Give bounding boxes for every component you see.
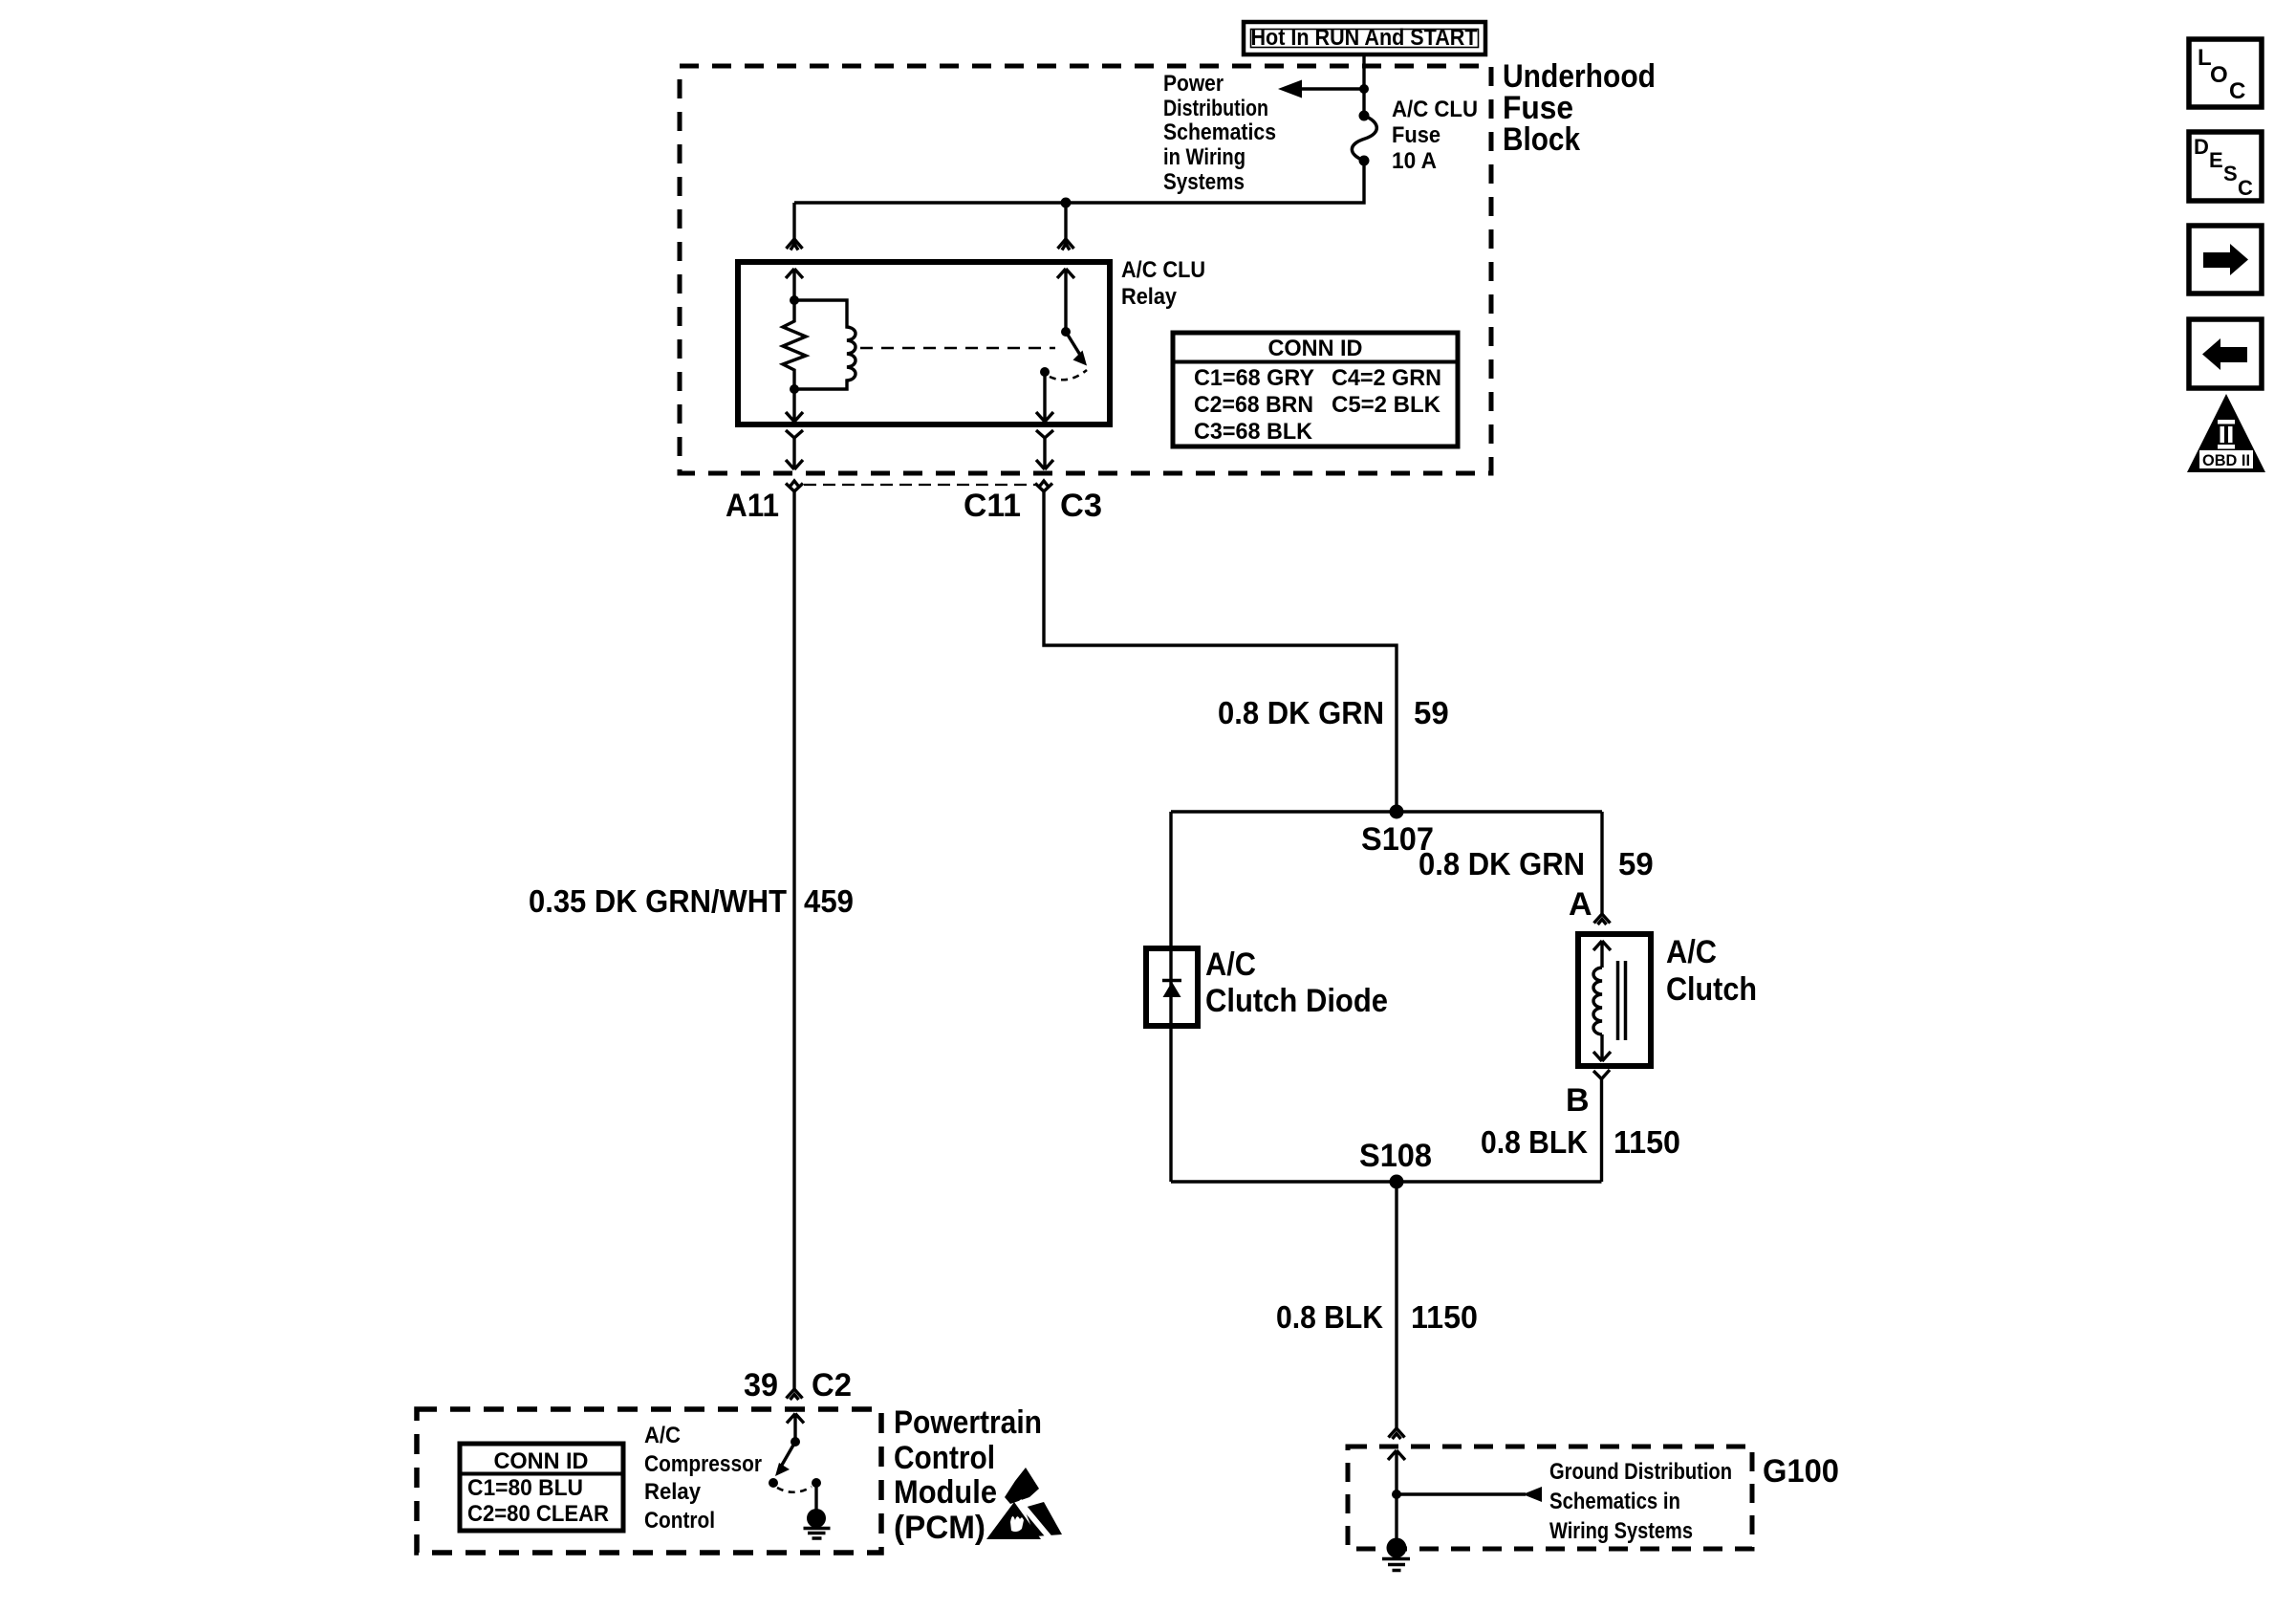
wire arrow to Power Distribution Schematics (1299, 87, 1364, 90)
wire stub to relay coil pin (792, 203, 795, 239)
splice node S107 (1390, 805, 1404, 819)
svg-text:Control: Control (644, 1508, 715, 1534)
splice node S108 (1390, 1175, 1404, 1189)
connector pair at relay switch pin (1058, 239, 1074, 250)
wire S108 rail (1171, 1180, 1602, 1183)
svg-text:A/C CLU: A/C CLU (1392, 97, 1478, 122)
svg-text:D: D (2194, 135, 2209, 159)
relay A/C CLU Relay box (738, 262, 1110, 424)
connector A11 (786, 481, 803, 491)
label A/C Compressor Relay Control (644, 1423, 762, 1534)
relay switch common pin arrow (pin 30) (1057, 269, 1074, 332)
relay coil ground pin arrow (pin 85) (786, 389, 803, 422)
svg-text:10 A: 10 A (1392, 148, 1437, 174)
G100 pin arrow (1388, 1450, 1405, 1494)
relay coil pin arrow (pin 86) (786, 269, 803, 300)
svg-text:O: O (2210, 62, 2228, 88)
ESD warning symbol at PCM (986, 1468, 1062, 1541)
relay coil winding (794, 300, 856, 389)
connector pair at relay coil pin (787, 239, 803, 250)
svg-text:Hot In RUN And START: Hot In RUN And START (1251, 25, 1478, 51)
label Ground Distribution Schematics in Wiring Systems (1549, 1459, 1732, 1544)
label A/C Clutch Diode (1205, 946, 1388, 1019)
svg-text:OBD II: OBD II (2202, 451, 2250, 469)
wire to ground distribution arrow (1397, 1492, 1526, 1495)
wire to PCM internal ground (814, 1483, 817, 1511)
label A/C Clutch (1666, 934, 1757, 1008)
PCM driver pin arrow (787, 1414, 804, 1443)
svg-text:Module: Module (894, 1474, 997, 1511)
svg-text:C3=68 BLK: C3=68 BLK (1194, 419, 1313, 445)
clutch pin A arrow (1593, 941, 1611, 968)
A/C clutch diode box (1146, 948, 1198, 1026)
label A/C CLU Relay (1121, 257, 1205, 310)
svg-text:A/C: A/C (1666, 934, 1717, 970)
label Power Distribution Schematics in Wiring Systems (1163, 71, 1276, 195)
relay switch blade (1066, 332, 1083, 359)
svg-text:C11: C11 (964, 488, 1021, 524)
wire down to ground (1395, 1494, 1397, 1547)
wire clutch B to S108 (0.8 BLK 1150) (1600, 1079, 1603, 1183)
svg-text:0.8 BLK: 0.8 BLK (1481, 1124, 1588, 1160)
relay switch output pin arrow (pin 87) (1036, 372, 1053, 422)
svg-text:C2=80 CLEAR: C2=80 CLEAR (467, 1501, 609, 1527)
wire S107 to A/C clutch (0.8 DK GRN 59) (1600, 812, 1603, 914)
svg-text:Clutch: Clutch (1666, 971, 1757, 1008)
fuse A/C CLU Fuse 10 A (1352, 111, 1376, 166)
svg-text:Wiring Systems: Wiring Systems (1549, 1518, 1693, 1544)
svg-text:C2=68 BRN: C2=68 BRN (1194, 392, 1313, 418)
CONN ID table underhood (1173, 333, 1458, 446)
svg-text:Relay: Relay (1121, 284, 1178, 310)
icon DESC box (2189, 132, 2262, 201)
svg-text:A/C: A/C (1205, 946, 1256, 983)
connector C11 / C3 (1035, 481, 1052, 491)
svg-text:A/C CLU: A/C CLU (1121, 257, 1205, 283)
svg-text:S108: S108 (1359, 1138, 1432, 1174)
svg-text:1150: 1150 (1411, 1299, 1478, 1335)
label Powertrain Control Module (PCM) (894, 1404, 1042, 1546)
svg-text:B: B (1566, 1082, 1590, 1119)
clutch coil (1593, 968, 1602, 1034)
diode symbol (1162, 981, 1181, 998)
switch throw dashed arc (1050, 370, 1087, 380)
svg-text:A11: A11 (726, 488, 779, 524)
svg-text:0.8 DK GRN: 0.8 DK GRN (1419, 846, 1585, 881)
connector B at clutch (1593, 1070, 1610, 1079)
wire A11 to PCM (0.35 DK GRN/WHT 459) (792, 491, 795, 1389)
svg-text:Distribution: Distribution (1163, 96, 1268, 121)
svg-text:CONN ID: CONN ID (1268, 336, 1363, 361)
connector A at clutch (1594, 914, 1611, 925)
PCM dashed box (417, 1409, 881, 1553)
fuse block exit connector C11 side (1036, 430, 1053, 469)
connector at PCM pin 39 (787, 1389, 803, 1400)
node G100 branch (1392, 1490, 1401, 1499)
svg-text:0.35 DK GRN/WHT: 0.35 DK GRN/WHT (529, 883, 787, 919)
svg-text:(PCM): (PCM) (894, 1510, 986, 1546)
svg-text:459: 459 (804, 883, 854, 919)
svg-text:Control: Control (894, 1440, 995, 1476)
wire through diode box (1169, 948, 1172, 1026)
label A/C CLU Fuse 10 A (1392, 97, 1478, 174)
ground G100 dashed box (1348, 1447, 1752, 1549)
resistor inside relay (783, 300, 806, 389)
icon OBD II triangle (2187, 394, 2265, 472)
node switch pivot (1061, 327, 1071, 337)
svg-text:Compressor: Compressor (644, 1451, 762, 1477)
svg-text:C4=2 GRN: C4=2 GRN (1332, 365, 1441, 391)
svg-text:Block: Block (1503, 121, 1580, 158)
PCM internal ground symbol (804, 1509, 831, 1538)
svg-text:0.8 DK GRN: 0.8 DK GRN (1218, 695, 1384, 730)
svg-text:C3: C3 (1060, 488, 1102, 524)
svg-text:59: 59 (1414, 695, 1449, 730)
icon LOC box (2189, 39, 2262, 107)
node Hot In RUN And START box (1244, 22, 1485, 54)
node PCM switch pivot (791, 1437, 800, 1447)
wire S107 to diode (1169, 812, 1172, 948)
clutch pin B arrow (1593, 1034, 1611, 1061)
svg-text:A: A (1569, 886, 1592, 923)
node coil top (790, 295, 799, 305)
svg-text:S: S (2223, 162, 2238, 185)
svg-text:Powertrain: Powertrain (894, 1404, 1042, 1441)
icon back arrow box (2189, 319, 2262, 388)
wire S107 rail (1171, 810, 1602, 813)
wire S108 to G100 (0.8 BLK 1150) (1395, 1182, 1397, 1428)
svg-text:1150: 1150 (1614, 1124, 1680, 1160)
label Underhood Fuse Block (1503, 58, 1656, 158)
wire diode to S108 (1169, 1026, 1172, 1182)
wire fuse to relay feed rail (794, 161, 1364, 203)
svg-text:Schematics in: Schematics in (1549, 1489, 1680, 1514)
svg-text:Relay: Relay (644, 1479, 702, 1505)
svg-text:in Wiring: in Wiring (1163, 144, 1245, 170)
svg-text:A/C: A/C (644, 1423, 681, 1448)
svg-text:C1=68 GRY: C1=68 GRY (1194, 365, 1314, 391)
underhood fuse block dashed border (680, 66, 1491, 473)
svg-text:C: C (2238, 176, 2253, 200)
junction node at fuse top (1359, 84, 1369, 94)
node switch contact (1040, 367, 1050, 377)
svg-text:Power: Power (1163, 71, 1224, 97)
svg-text:59: 59 (1618, 846, 1654, 881)
ground G100 symbol (1382, 1538, 1410, 1571)
svg-text:C1=80 BLU: C1=80 BLU (467, 1475, 583, 1501)
clutch plates (1618, 961, 1626, 1040)
relay actuation dashed link (860, 347, 1055, 350)
node PCM ground pin (812, 1478, 821, 1488)
wire stub to relay switch pin (1064, 203, 1067, 239)
svg-text:Ground Distribution: Ground Distribution (1549, 1459, 1732, 1485)
svg-text:Fuse: Fuse (1392, 122, 1440, 148)
svg-text:Systems: Systems (1163, 169, 1245, 195)
svg-text:E: E (2209, 148, 2223, 172)
svg-text:Schematics: Schematics (1163, 120, 1276, 145)
svg-text:C5=2 BLK: C5=2 BLK (1332, 392, 1441, 418)
svg-text:CONN ID: CONN ID (494, 1448, 589, 1474)
junction node on rail (1061, 198, 1072, 208)
svg-text:C2: C2 (812, 1367, 852, 1403)
PCM switch blade (781, 1442, 795, 1467)
svg-text:Clutch Diode: Clutch Diode (1205, 983, 1388, 1019)
harness inline dashed connector line (804, 484, 1035, 486)
svg-text:G100: G100 (1763, 1453, 1839, 1490)
connector at G100 (1389, 1428, 1405, 1439)
icon forward arrow box (2189, 226, 2262, 294)
node coil bottom (790, 384, 799, 394)
fuse block exit connector A11 side (786, 430, 803, 469)
PCM switch throw dashed arc (777, 1487, 812, 1492)
svg-text:39: 39 (744, 1367, 778, 1403)
wire C3 to S107 (0.8 DK GRN 59) (1044, 491, 1397, 812)
node PCM switch contact (769, 1478, 778, 1488)
PCM CONN ID table (460, 1444, 623, 1531)
svg-text:0.8 BLK: 0.8 BLK (1276, 1299, 1383, 1335)
A/C clutch box (1578, 934, 1651, 1066)
svg-text:C: C (2229, 78, 2245, 104)
wire from Hot box down to fuse (1362, 56, 1365, 115)
